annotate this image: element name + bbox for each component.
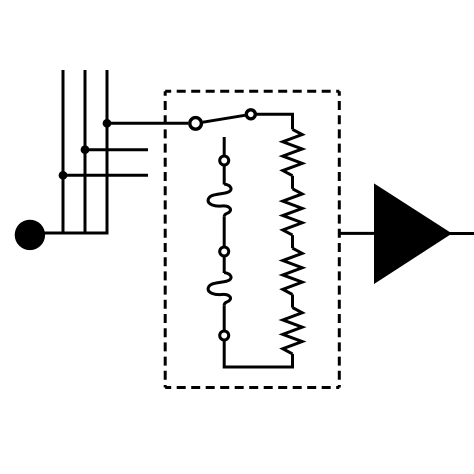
wire tap 1 to switch [107, 122, 188, 125]
wire bus vertical 2 [84, 70, 87, 233]
wire input bus bottom [30, 232, 109, 235]
attenuator block boundary top (dashed) [165, 90, 339, 93]
wire block output to amplifier [339, 232, 375, 235]
wire resistor string bottom [224, 340, 292, 367]
wire tap stub top [223, 137, 226, 157]
resistor R3 [283, 248, 302, 294]
wire tap 3 [63, 174, 148, 177]
squiggle continuation mark 1 [208, 184, 231, 217]
switch S1 blade [203, 115, 245, 122]
wire bus vertical 1 [62, 70, 65, 233]
wire bus vertical 3 [106, 70, 109, 233]
wire squiggle 2 to T3 [223, 305, 226, 331]
wire R1-R2 [291, 176, 294, 189]
attenuator block boundary right (dashed) [338, 91, 341, 387]
wire T1 to squiggle 1 [223, 165, 226, 185]
junction dot on vertical 1 [59, 171, 68, 180]
resistor R1 [283, 129, 302, 175]
attenuator block boundary bottom (dashed) [165, 386, 339, 389]
junction dot on vertical 3 [103, 119, 112, 128]
attenuator block boundary left (dashed) [164, 91, 167, 387]
switch S1 pole contact [190, 118, 202, 130]
amplifier A1 [374, 183, 452, 284]
tap contact T1 [220, 156, 229, 165]
tap contact T2 [220, 247, 229, 256]
wire squiggle 1 to T2 [223, 217, 226, 247]
wire R3-R4 [291, 295, 294, 308]
wire throw to resistor string [256, 114, 293, 129]
squiggle continuation mark 2 [208, 273, 231, 306]
wire tap 2 [85, 148, 148, 151]
switch S1 throw contact [246, 110, 255, 119]
resistor R2 [283, 189, 302, 235]
wire T2 to squiggle 2 [223, 256, 226, 273]
junction dot on vertical 2 [81, 145, 90, 154]
resistor R4 [283, 308, 302, 354]
input node IN [15, 220, 45, 250]
wire R2-R3 [291, 235, 294, 248]
wire amplifier output [449, 232, 474, 235]
tap contact T3 [220, 331, 229, 340]
